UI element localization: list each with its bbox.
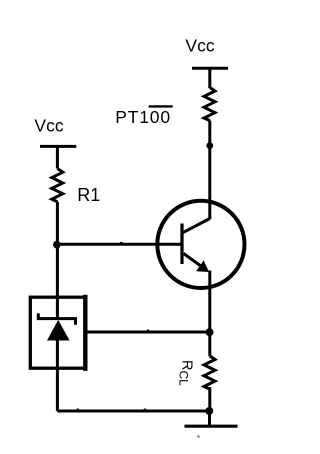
zener diode D1 cathode bar [38, 313, 75, 324]
wire RCL bottom to ground node [208, 387, 211, 411]
transistor Q1 emitter diagonal with arrow [184, 254, 203, 267]
zener diode D1 anode triangle [47, 320, 70, 341]
wire tick on emitter wire [147, 330, 149, 332]
ground second mark (faint) [197, 435, 200, 438]
power rail Vcc bar (right) [192, 67, 228, 70]
wire bottom rail [57, 410, 209, 413]
wire ground stub [208, 411, 211, 426]
wire zener anode to bottom rail [56, 339, 59, 411]
wire PT100 bottom to transistor collector [208, 121, 211, 220]
junction collector-rail dot [206, 142, 213, 149]
resistor PT100 [204, 88, 215, 121]
wire tick on bottom rail (right) [144, 409, 146, 411]
junction base node dot [53, 241, 61, 249]
transistor Q1 circle [157, 201, 244, 288]
transistor Q1 collector diagonal [183, 219, 210, 233]
svg-text:PT100: PT100 [115, 107, 171, 127]
resistor RCL [204, 356, 215, 389]
svg-text:R1: R1 [77, 185, 100, 205]
junction emitter node dot [206, 328, 214, 336]
wire tick on base wire [120, 242, 122, 244]
transistor Q1 base bar [180, 224, 183, 265]
wire base node to transistor base [57, 243, 182, 246]
wire tick on bottom rail (left) [77, 409, 79, 411]
svg-text:Vcc: Vcc [185, 35, 214, 55]
svg-text:Vcc: Vcc [34, 115, 63, 135]
shunt regulator U1 box [30, 297, 85, 368]
wire Vcc bar to R1 top [56, 146, 59, 168]
resistor R1 [52, 169, 63, 202]
junction ground node dot [205, 407, 213, 415]
wire Vcc bar to PT100 top [208, 68, 211, 88]
wire box right side to emitter node [85, 331, 210, 334]
ground bar [185, 425, 238, 428]
power rail Vcc bar (left) [40, 145, 76, 148]
wire box top to zener cathode [56, 296, 59, 319]
wire emitter node to RCL top [208, 332, 211, 356]
wire R1 bottom to regulator box [56, 202, 59, 297]
wire emitter to node E [208, 271, 211, 333]
